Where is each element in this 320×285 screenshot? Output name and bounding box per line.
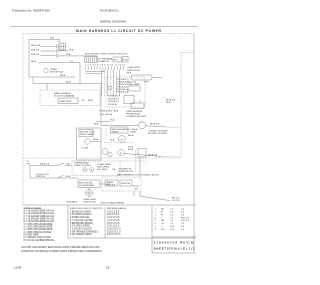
svg-text:Y-B: Y-B (81, 100, 85, 102)
oven light lower box (128, 86, 140, 91)
bake element dashed box (40, 90, 100, 106)
oven light box (131, 75, 152, 80)
svg-text:DRIVE GEAR: DRIVE GEAR (80, 133, 94, 136)
thermostat feed wire (30, 165, 58, 167)
svg-text:C = 14 GAUGE WIRE-GA CAL: C = 14 GAUGE WIRE-GA CAL (24, 215, 56, 218)
svg-text:BK-A 2-A: BK-A 2-A (31, 44, 41, 47)
EOC aux box2 (123, 57, 129, 63)
legend column divider 1 (67, 205, 69, 238)
svg-text:PLATED WIRE: PLATED WIRE (24, 234, 40, 237)
svg-text:W-B: W-B (127, 72, 132, 74)
clock wire right (100, 183, 110, 185)
svg-text:CONVECTION FAN: CONVECTION FAN (148, 130, 168, 133)
svg-text:E 18 0.75 1.0: E 18 0.75 1.0 (107, 231, 121, 233)
header rule (10, 26, 198, 28)
svg-text:1 BK BLACK (NOIR): 1 BK BLACK (NOIR) (70, 210, 91, 213)
svg-text:P8 GY-A: P8 GY-A (108, 103, 117, 106)
svg-text:W-A: W-A (110, 119, 115, 122)
svg-text:MIN WIRE GAUGE: MIN WIRE GAUGE (107, 207, 126, 210)
svg-text:OVEN VENT: OVEN VENT (59, 101, 72, 103)
door lock cam wire (91, 141, 101, 143)
frame dashed top border (23, 33, 194, 35)
lv inner box 2 (120, 180, 132, 186)
svg-text:4 Y YELLOW (JAUNE): 4 Y YELLOW (JAUNE) (70, 219, 93, 222)
svg-text:E 18 0.75 1.0: E 18 0.75 1.0 (107, 229, 121, 231)
svg-text:8 OR ORANGE (ORANGE): 8 OR ORANGE (ORANGE) (70, 230, 98, 233)
broil element label box (111, 127, 129, 133)
EOC connector strip (85, 57, 98, 63)
svg-text:OVEN CONTROL: OVEN CONTROL (74, 165, 92, 167)
dashed branch wire (104, 142, 134, 144)
lv ground triangle (134, 186, 139, 191)
buzzer symbol (86, 190, 93, 197)
lv drop wires (133, 191, 135, 196)
wire bake feed (33, 83, 101, 85)
svg-text:C 14 1.5 2.5: C 14 1.5 2.5 (107, 217, 120, 219)
svg-text:B 12 2.5 4.0: B 12 2.5 4.0 (107, 214, 120, 216)
convection fan motor (138, 122, 145, 129)
svg-text:P9 BK-A W-B OR-A: P9 BK-A W-B OR-A (99, 109, 119, 112)
EOC pin bus wire 2 (86, 73, 102, 75)
switch symbol 2 (57, 175, 64, 178)
door lock motor (102, 149, 108, 155)
svg-text:P5 W-A 3 4: P5 W-A 3 4 (108, 97, 120, 100)
EOC pin ticks (85, 67, 87, 70)
junction dot (103, 71, 104, 72)
thermostat contacts (83, 168, 87, 172)
svg-text:18: 18 (106, 266, 110, 270)
title block rule (152, 236, 196, 238)
svg-text:V-A 8-A: V-A 8-A (130, 128, 138, 131)
title block bottom rule (152, 252, 196, 254)
svg-text:P8 GY-A 2-A: P8 GY-A 2-A (116, 90, 129, 93)
short wire stub (105, 128, 107, 140)
svg-text:IGNITOR: IGNITOR (121, 183, 130, 185)
svg-text:E = 18 GAUGE WIRE-GA CAL: E = 18 GAUGE WIRE-GA CAL (24, 220, 55, 223)
svg-text:BK-A: BK-A (60, 74, 66, 77)
svg-text:W-A: W-A (94, 122, 99, 125)
svg-text:BK-A 2-A: BK-A 2-A (40, 162, 50, 165)
bake element inner box (58, 98, 78, 104)
svg-text:CLEAN TEMP: CLEAN TEMP (97, 163, 111, 166)
svg-text:SPARK: SPARK (106, 181, 114, 184)
latch dashes (135, 150, 137, 171)
switch symbol (58, 163, 65, 166)
relay board bracket (124, 96, 134, 104)
svg-text:GY1 1.5: GY1 1.5 (181, 220, 190, 222)
clock drop wire (88, 188, 90, 190)
latch box (138, 149, 146, 158)
dc power section dashed divider (180, 53, 182, 159)
latch drop wire (139, 157, 141, 177)
timer motor symbol (44, 68, 48, 72)
svg-text:OR: OR (161, 229, 165, 231)
svg-text:N.O. HELD: N.O. HELD (97, 169, 108, 171)
lv inner box 1 (105, 180, 118, 186)
dc power divider top tick (181, 52, 194, 54)
svg-text:W-A: W-A (66, 53, 71, 56)
svg-text:W-A: W-A (69, 48, 74, 51)
fan wire left (101, 125, 138, 127)
wire drop into bake box (46, 84, 48, 91)
wire drop to bake feed (79, 63, 81, 84)
relay board dashed box (106, 77, 145, 107)
supply bottom wire (29, 76, 75, 78)
svg-text:D = 16 GAUGE WIRE-GA CAL: D = 16 GAUGE WIRE-GA CAL (24, 218, 56, 221)
svg-text:SWITCH 2-B: SWITCH 2-B (83, 201, 96, 203)
svg-text:9 GN GREEN (VERT): 9 GN GREEN (VERT) (70, 234, 92, 236)
svg-text:W-B: W-B (144, 81, 149, 83)
svg-text:WIRING DIAGRAM: WIRING DIAGRAM (100, 20, 127, 24)
svg-text:C 14 1.5 2.5: C 14 1.5 2.5 (107, 220, 120, 222)
frame dashed left border (22, 34, 24, 206)
P7 drop wire (29, 166, 31, 179)
svg-text:LK-SW: LK-SW (81, 147, 89, 149)
svg-text:GN-A BR-B: GN-A BR-B (66, 201, 78, 204)
svg-text:6 = FIL DE CALIBRE SPECIAL: 6 = FIL DE CALIBRE SPECIAL (24, 239, 56, 242)
svg-text:BK1 1.5: BK1 1.5 (181, 217, 190, 219)
svg-text:11/06: 11/06 (14, 266, 22, 270)
legend table top rule (23, 204, 196, 206)
svg-text:BK-A: BK-A (128, 134, 134, 137)
svg-text:ATTENTION: COUPER LE COURANT A: ATTENTION: COUPER LE COURANT AVANT D'EFF… (21, 250, 103, 253)
svg-text:BR: BR (161, 220, 164, 222)
svg-text:BAKE ELEMENT: BAKE ELEMENT (54, 92, 71, 95)
svg-text:2 = 150C APPLIANCE WIRE: 2 = 150C APPLIANCE WIRE (24, 226, 53, 229)
legend column divider 2 (104, 208, 106, 239)
svg-text:BK-A 7-A: BK-A 7-A (166, 98, 176, 101)
svg-text:MAIN HARNESS L1 CIRCUIT DC POW: MAIN HARNESS L1 CIRCUIT DC POWER (76, 29, 162, 33)
svg-text:GY: GY (161, 223, 165, 225)
svg-text:W-B: W-B (50, 38, 55, 40)
svg-text:CONSOLE 2-A: CONSOLE 2-A (118, 170, 133, 173)
svg-text:D 16 1.0 1.5: D 16 1.0 1.5 (107, 223, 120, 225)
svg-text:E 18 0.75 1.0: E 18 0.75 1.0 (107, 234, 121, 236)
svg-text:P10 Y-A V-A: P10 Y-A V-A (100, 113, 112, 116)
L1 section bottom dashed divider (23, 157, 181, 159)
oven sensor box (131, 103, 144, 109)
svg-text:SWITCH: SWITCH (36, 176, 45, 178)
svg-text:BK-B: BK-B (66, 82, 72, 84)
svg-text:MOTOR W-A: MOTOR W-A (50, 71, 63, 74)
wire to fan (96, 121, 110, 123)
svg-text:BK-A 7-A: BK-A 7-A (150, 122, 160, 125)
frame right border (193, 34, 195, 254)
legend table bottom rule (68, 237, 196, 239)
svg-text:LOW VOLTAGE WIRING: LOW VOLTAGE WIRING (100, 201, 125, 204)
terminal block L1 (59, 43, 66, 50)
svg-text:BK-A: BK-A (31, 60, 37, 63)
svg-text:P6 R-A 5 6: P6 R-A 5 6 (108, 100, 119, 103)
svg-text:3 = 200C APPLIANCE WIRE: 3 = 200C APPLIANCE WIRE (24, 228, 53, 231)
door switch wire (30, 177, 78, 179)
svg-text:2 W WHITE (BLANC): 2 W WHITE (BLANC) (70, 213, 92, 216)
svg-text:5 = SPECIAL INSULATION: 5 = SPECIAL INSULATION (24, 236, 52, 239)
svg-text:W-A: W-A (110, 139, 115, 142)
svg-text:2-B 1-B: 2-B 1-B (172, 200, 180, 202)
cooling fan motor (119, 136, 126, 143)
svg-text:316048708 REV:B: 316048708 REV:B (154, 240, 195, 244)
right vertical wire (100, 84, 102, 126)
svg-text:1 = 105C APPLIANCE WIRE: 1 = 105C APPLIANCE WIRE (24, 223, 53, 226)
svg-text:7 V VIOLET (VIOLET): 7 V VIOLET (VIOLET) (70, 229, 92, 231)
svg-text:D 16 1.0 1.5: D 16 1.0 1.5 (107, 226, 120, 228)
svg-text:BK-B: BK-B (88, 100, 94, 102)
svg-text:BOARD ID: BOARD ID (99, 60, 110, 63)
legend column divider 3 (151, 205, 153, 253)
svg-text:GY-A: GY-A (128, 146, 134, 149)
svg-text:CUTOUT (CANADA): CUTOUT (CANADA) (54, 95, 74, 98)
svg-text:A = 10 GAUGE WIRE-GA CAL: A = 10 GAUGE WIRE-GA CAL (24, 210, 55, 213)
oven light wire (152, 77, 162, 79)
dashed wire to bus (162, 156, 181, 159)
thermostat dashed box (72, 161, 120, 176)
wire L1 feed top (29, 40, 60, 78)
svg-text:Y-A: Y-A (66, 162, 70, 165)
svg-text:CAUTION: DISCONNECT ELECTRICAL: CAUTION: DISCONNECT ELECTRICAL SUPPLY BE… (21, 246, 100, 249)
svg-text:GY-A: GY-A (65, 175, 71, 178)
svg-text:MODULE: MODULE (106, 185, 116, 187)
svg-text:CLOCK/TIMER: CLOCK/TIMER (79, 185, 94, 187)
door lock motor label box (79, 130, 93, 137)
EOC aux box (113, 57, 122, 62)
svg-text:Publication No. 5995447800: Publication No. 5995447800 (12, 9, 50, 13)
svg-text:BK-A: BK-A (93, 138, 99, 141)
dashed continuation east (120, 160, 146, 162)
svg-text:MAIN HARNESS LOW VOLTAGE CIRCU: MAIN HARNESS LOW VOLTAGE CIRCUIT (117, 174, 160, 177)
EOC pin bus wire 1 (86, 70, 105, 72)
wire motor to bus (124, 154, 162, 157)
svg-text:LOCATED IN OVEN: LOCATED IN OVEN (126, 115, 146, 118)
svg-text:PLGF389CCx: PLGF389CCx (100, 9, 119, 13)
door lock assembly box (77, 128, 102, 160)
EOC drop wire comb (101, 70, 103, 97)
wire drop left to bake row (32, 77, 34, 84)
svg-text:3 R RED (ROUGE): 3 R RED (ROUGE) (70, 217, 90, 219)
svg-text:PM: PM (27, 164, 30, 166)
svg-text:W-A 2-A: W-A 2-A (31, 48, 40, 51)
svg-text:OR-A: OR-A (130, 130, 136, 133)
svg-text:WIRE CODE USE OF CIRCUITS: WIRE CODE USE OF CIRCUITS (70, 208, 103, 210)
svg-text:M: M (121, 139, 123, 141)
fan wire right (146, 126, 166, 127)
svg-text:BK-A 7-A: BK-A 7-A (148, 153, 158, 156)
lv slant wire to legend (140, 196, 170, 201)
svg-text:1 2 3 4 5 6 7 8 9 10 11 12 13: 1 2 3 4 5 6 7 8 9 10 11 12 13 14 (85, 65, 126, 67)
svg-text:WIRING LEGEND: WIRING LEGEND (24, 208, 42, 210)
relay coil (108, 86, 112, 90)
svg-text:W-A: W-A (166, 101, 171, 104)
svg-text:SHEET(FEUILLE):1/2: SHEET(FEUILLE):1/2 (154, 247, 195, 251)
svg-text:B = 12 GAUGE WIRE-GA CAL: B = 12 GAUGE WIRE-GA CAL (24, 212, 55, 215)
fan wire dashed to bus (166, 127, 181, 128)
lower motor (118, 149, 124, 155)
low voltage dashed box (102, 177, 141, 191)
svg-text:3400W: 3400W (112, 131, 120, 133)
svg-text:6 GY GREY (GRIS): 6 GY GREY (GRIS) (70, 226, 90, 228)
door lock cam symbol (84, 138, 91, 145)
svg-text:2-A: 2-A (112, 168, 116, 171)
svg-text:ELECTRONIC OVEN CONTROL (EOC): ELECTRONIC OVEN CONTROL (EOC) P3 (85, 54, 128, 56)
svg-text:BK-A: BK-A (128, 148, 134, 151)
svg-text:M: M (120, 153, 122, 155)
svg-text:OVEN LAMP: OVEN LAMP (127, 83, 140, 86)
svg-text:MOTOR LOCATED: MOTOR LOCATED (148, 132, 167, 135)
oven sensor wires up (133, 100, 135, 103)
svg-text:4 = 250C SPECIAL NICKEL: 4 = 250C SPECIAL NICKEL (24, 231, 53, 234)
clock box (78, 180, 100, 188)
svg-text:R-A 2-A: R-A 2-A (31, 53, 39, 56)
svg-text:THERMOSTAT: THERMOSTAT (74, 162, 89, 165)
svg-text:A 10 1.5 2.5: A 10 1.5 2.5 (107, 210, 120, 213)
svg-text:5 BR BROWN (BRUN): 5 BR BROWN (BRUN) (70, 223, 93, 225)
svg-text:P4 BK-A 1 2: P4 BK-A 1 2 (108, 95, 121, 98)
